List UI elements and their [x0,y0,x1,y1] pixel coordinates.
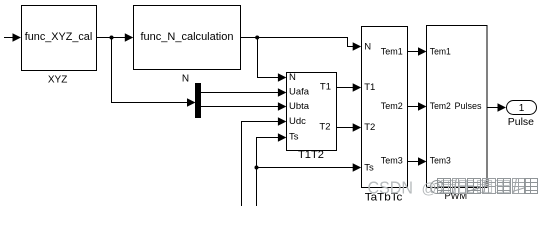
wire Ts into T1T2 [256,137,278,138]
svg-text:Udc: Udc [289,116,306,127]
svg-text:CSDN: CSDN [368,177,414,197]
arrowhead Ts TaTbTc [353,163,362,171]
arrowhead into output port [498,103,507,111]
junction node on XYZ output [110,36,114,40]
arrowhead Tem1 [418,47,427,55]
watermark CSDN [368,177,437,197]
wire branch down from XYZ output [111,37,112,103]
arrowhead into func_N_calculation [125,33,134,41]
wire Tem3 [407,161,419,162]
arrowhead into XYZ [13,33,22,41]
arrowhead T2 [353,123,362,131]
arrowhead T1 [353,83,362,91]
wire PWM output [487,107,498,108]
demux [195,83,201,118]
block func_N_calculation [134,6,241,70]
wire T2 [337,127,354,128]
wire XYZ to func_N_calculation [97,37,126,38]
watermark CJK glyphs dark layer [431,179,538,194]
svg-text:Tem2: Tem2 [381,101,403,112]
svg-text:Ts: Ts [289,132,299,143]
block TaTbTc [362,27,408,188]
svg-text:N: N [182,74,189,85]
junction node Ts branch [255,166,259,170]
svg-text:Ts: Ts [364,163,374,174]
svg-text:func_N_calculation: func_N_calculation [141,31,234,43]
wire input to XYZ [4,37,14,38]
svg-text:T1: T1 [364,82,375,93]
wire branch down to T1T2 N [257,37,258,78]
arrowhead N T1T2 [278,73,287,81]
svg-text:Pulse: Pulse [508,117,535,128]
arrowhead Ts T1T2 [278,133,287,141]
arrowhead Tem2 [418,102,427,110]
svg-text:T1T2: T1T2 [298,149,324,161]
svg-text:@: @ [422,180,437,197]
wire Ts branch to TaTbTc [256,167,353,168]
svg-text:T2: T2 [319,122,330,133]
svg-text:T2: T2 [364,122,375,133]
block XYZ (func_XYZ_cal) [22,6,97,71]
wire demux out 2 (Ubta) [201,106,278,107]
wire Tem2 [407,106,419,107]
svg-text:1: 1 [519,103,525,114]
output port 1 (Pulse) [507,101,537,115]
block T1T2 [287,72,337,151]
arrowhead Ubta [278,102,287,110]
svg-text:XYZ: XYZ [48,75,68,86]
svg-text:Tem3: Tem3 [381,155,403,166]
svg-text:Tem1: Tem1 [430,47,451,58]
arrowhead Tem3 [418,157,427,165]
wire demux out 1 (Uafa) [201,92,278,93]
svg-text:N: N [364,42,371,53]
watermark CJK glyphs light layer [442,181,510,193]
arrowhead Uafa [278,88,287,96]
arrowhead into demux [187,98,196,106]
svg-text:Pulses: Pulses [455,101,482,112]
wire Ts vertical from bottom [256,137,257,206]
block PWM [427,26,488,188]
svg-text:N: N [289,72,296,83]
svg-text:func_XYZ_cal: func_XYZ_cal [25,31,93,43]
arrowhead Udc [278,117,287,125]
wire T1 [337,87,354,88]
wire into TaTbTc N [347,46,354,47]
svg-text:Uafa: Uafa [289,87,310,98]
wire Udc vertical from bottom [241,121,242,206]
svg-text:Tem2: Tem2 [430,101,451,112]
svg-text:Tem3: Tem3 [430,155,451,166]
wire right into demux [111,102,188,103]
wire Udc into T1T2 [241,121,278,122]
wire into T1T2 N [257,77,278,78]
wire down to TaTbTc N [347,37,348,47]
junction node on N output [255,36,259,40]
svg-text:Ubta: Ubta [289,101,310,112]
svg-text:Tem1: Tem1 [381,47,403,58]
arrowhead N TaTbTc [353,42,362,50]
wire Tem1 [407,51,419,52]
svg-text:T1: T1 [320,82,331,93]
wire func_N_calculation output rail [241,37,348,38]
